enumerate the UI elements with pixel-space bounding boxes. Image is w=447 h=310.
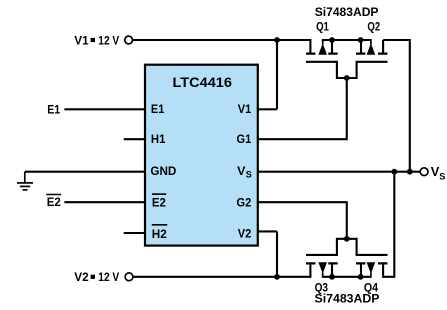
svg-text:E2: E2	[47, 195, 61, 209]
svg-text:V1: V1	[238, 102, 252, 116]
transistor Q1 drain stub	[309, 39, 311, 53]
node junction dot gates top	[344, 75, 350, 81]
node junction dot gates bottom	[344, 236, 350, 242]
node junction dot Q2 drain at VS	[407, 169, 413, 175]
transistor Q3 body arrow	[322, 273, 324, 278]
wire H2bar stub	[124, 232, 145, 234]
label E2bar external	[46, 195, 61, 210]
svg-text:V: V	[237, 164, 246, 178]
wire Q4 drain to VS	[383, 172, 394, 277]
transistor Q4 body arrow	[370, 273, 372, 278]
wire V2 pin to rail vertical	[276, 231, 278, 276]
label V1 = 12 V	[74, 33, 119, 47]
transistor Q2 body arrow	[370, 39, 372, 45]
wire V1 pin to rail vertical	[276, 40, 278, 109]
svg-text:V2: V2	[238, 226, 252, 240]
svg-text:V2: V2	[74, 270, 89, 284]
wire E2bar input	[64, 201, 145, 203]
node junction dot V1-to-pin	[274, 37, 280, 43]
svg-text:S: S	[246, 170, 252, 180]
label V2 = 12 V	[74, 270, 119, 284]
svg-text:12 V: 12 V	[98, 33, 119, 47]
label pin VS	[237, 164, 252, 180]
transistor Q4 source plates (feet)	[356, 262, 387, 264]
wire pin G2 to gates	[258, 202, 347, 239]
transistor Q4 gate plate	[347, 239, 388, 255]
transistor Q1 source plates (feet)	[306, 52, 338, 54]
svg-text:V1: V1	[74, 33, 89, 47]
transistor Q1 body arrow	[322, 39, 324, 45]
label VS output	[431, 164, 446, 181]
svg-text:12 V: 12 V	[98, 270, 119, 284]
svg-text:S: S	[439, 172, 445, 182]
svg-text:H1: H1	[151, 132, 166, 146]
label pin H2bar	[152, 225, 168, 241]
transistor Q2 drain stub	[382, 40, 384, 53]
transistor Q3 drain stub	[309, 265, 311, 278]
wire pin G1 to gates	[258, 78, 347, 139]
ground	[17, 172, 33, 190]
wire Q2 drain to VS	[383, 40, 410, 172]
transistor Q2 source stub	[360, 40, 362, 53]
svg-text:H2: H2	[152, 227, 167, 241]
svg-text:G1: G1	[237, 132, 252, 146]
IC U1 LTC4416 body	[145, 65, 258, 246]
svg-text:LTC4416: LTC4416	[173, 74, 233, 90]
wire common source bottom	[323, 276, 371, 278]
node junction dot Q3 source	[329, 274, 335, 280]
svg-text:Si7483ADP: Si7483ADP	[315, 291, 380, 305]
node V2 input terminal circle	[125, 273, 133, 281]
svg-text:GND: GND	[150, 164, 176, 178]
transistor Q4 source stub	[360, 265, 362, 277]
svg-text:E1: E1	[47, 102, 60, 116]
transistor Q3 source stub	[331, 265, 333, 277]
transistor Q2 source plates (feet)	[356, 52, 387, 54]
svg-text:E1: E1	[151, 102, 165, 116]
svg-text:G2: G2	[237, 196, 252, 210]
svg-text:Q2: Q2	[367, 19, 380, 33]
wire E1 input	[64, 108, 145, 110]
svg-text:Si7483ADP: Si7483ADP	[315, 5, 379, 19]
node V1 input terminal circle	[125, 36, 133, 44]
node junction dot Q4 drain at VS	[391, 169, 397, 175]
transistor Q3 gate plate	[306, 239, 347, 255]
node VS output terminal circle	[420, 168, 428, 176]
wire pin V1 stub	[258, 108, 277, 110]
transistor Q3 source plates (feet)	[306, 262, 338, 264]
label pin E2bar	[152, 194, 166, 210]
transistor Q1 gate plate	[306, 62, 347, 78]
svg-text:Q1: Q1	[316, 19, 329, 33]
transistor Q2 gate plate	[347, 62, 388, 78]
svg-text:E2: E2	[152, 196, 166, 210]
node junction dot Q4 source	[358, 274, 364, 280]
node junction dot V2-to-pin	[274, 274, 280, 280]
wire GND	[25, 171, 145, 173]
transistor Q1 source stub	[331, 40, 333, 53]
wire pin VS to output	[258, 171, 421, 173]
node junction dot Q1 source	[329, 37, 335, 43]
wire common source top	[323, 39, 371, 41]
wire pin V2 stub	[258, 230, 277, 232]
wire H1 stub	[124, 138, 145, 140]
wire V2 rail	[133, 276, 311, 278]
transistor Q4 drain stub	[382, 265, 384, 278]
wire V1 rail	[133, 39, 311, 41]
node junction dot Q2 source	[358, 37, 364, 43]
